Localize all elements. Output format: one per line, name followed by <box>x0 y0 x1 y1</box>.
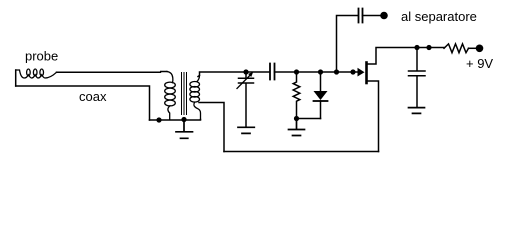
capacitor C4 bypass <box>409 48 426 108</box>
resistor R2 <box>444 44 469 53</box>
node junction R1 top <box>294 69 299 74</box>
wire probe left vertical <box>15 70 17 86</box>
wire coax bottom <box>16 86 150 120</box>
wire rail D1 to C3 branch <box>321 71 337 73</box>
wire rail C3 branch to gate <box>337 71 358 73</box>
wire R2 to terminal <box>469 47 476 49</box>
node junction bypass cap <box>414 45 419 50</box>
transformer T1 primary L1 <box>167 72 173 83</box>
wire C3 branch vertical <box>337 16 359 73</box>
wire secondary tap to source rail <box>199 103 224 152</box>
node junction gate <box>350 69 355 74</box>
wire C2 to R1 node <box>275 71 297 73</box>
wire node2 to R2 <box>429 47 444 49</box>
transistor Q1 channel <box>365 63 368 84</box>
wire rail R1 to D1 <box>297 71 321 73</box>
transformer T1 core <box>182 73 187 115</box>
svg-text:al separatore: al separatore <box>401 9 477 24</box>
svg-text:coax: coax <box>79 89 107 104</box>
wire C3 to terminal <box>363 15 381 17</box>
node junction R1 bottom <box>294 116 299 121</box>
wire bottom primary rail <box>150 119 201 122</box>
ground G4 under C4 <box>409 108 425 114</box>
capacitor C3 output <box>359 9 363 23</box>
wire bottom source rail <box>224 151 379 153</box>
wire probe top to transformer <box>57 71 167 74</box>
transformer T1 secondary L2 <box>197 76 200 82</box>
node junction coax-primary <box>156 117 161 122</box>
node junction C3 branch <box>334 69 339 74</box>
wire rail var-cap to C2 <box>246 71 270 73</box>
ground G3 under R1 <box>289 119 305 136</box>
wire drain node to node2 <box>417 47 429 49</box>
capacitor C2 coupling <box>270 64 275 80</box>
svg-text:+ 9V: + 9V <box>466 56 493 71</box>
wire Q1 drain <box>367 48 417 65</box>
node junction supply <box>426 45 431 50</box>
svg-text:probe: probe <box>25 49 58 64</box>
variable capacitor C1 <box>239 72 254 127</box>
resistor R1 <box>293 72 300 119</box>
terminal al separatore <box>380 12 388 20</box>
probe pickup coil Lp <box>16 70 57 78</box>
node junction ground tap <box>181 117 186 122</box>
diode D1 <box>320 72 322 91</box>
ground G2 under variable capacitor <box>238 127 254 133</box>
wire secondary top to rail <box>198 72 246 77</box>
transistor Q1 JFET gate arrow <box>358 68 365 77</box>
node junction variable capacitor <box>243 69 248 74</box>
terminal +9V <box>476 45 484 53</box>
wire R1 bottom to D1 bottom <box>297 118 321 120</box>
ground G1 under transformer <box>176 120 193 139</box>
node junction D1 top <box>318 69 323 74</box>
wire Q1 source <box>367 81 379 152</box>
